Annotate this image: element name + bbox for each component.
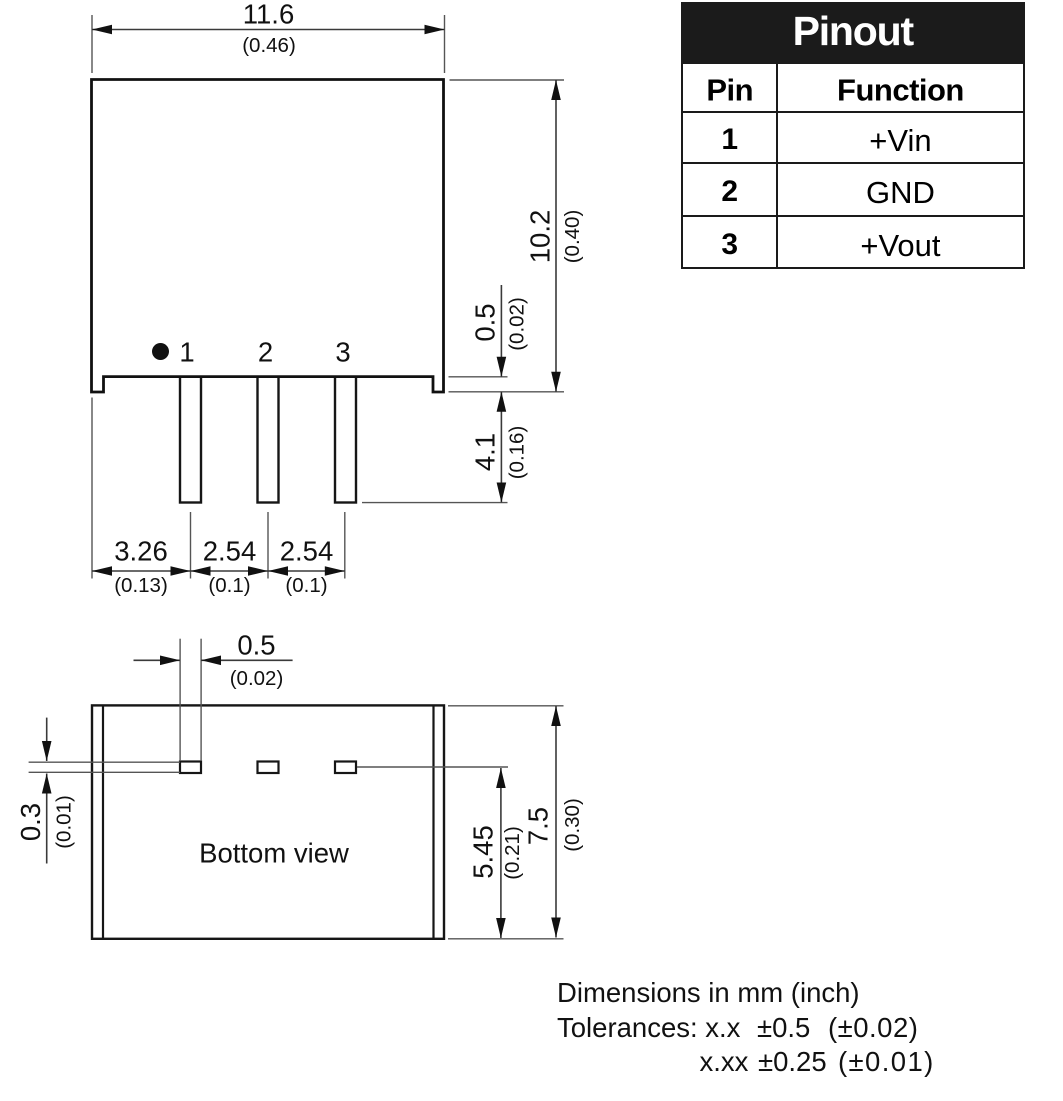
- extension line right of 11.6 dim: [444, 15, 446, 73]
- svg-text:11.6: 11.6: [243, 0, 294, 30]
- svg-text:7.5: 7.5: [523, 807, 554, 845]
- extension line at pin tips for 4.1 dim: [362, 502, 508, 504]
- pin 3 lead (front view): [335, 377, 356, 503]
- svg-text:1: 1: [179, 337, 194, 368]
- extension line below pin 1: [190, 512, 192, 579]
- svg-text:5.45: 5.45: [468, 825, 499, 879]
- extension line pad1 left for 0.5 dim: [179, 639, 181, 761]
- svg-text:(0.1): (0.1): [285, 574, 327, 597]
- dimension line 4.1: [500, 392, 502, 503]
- package body outline (front view): [92, 80, 444, 393]
- dimension line 3.26 / 2.54 / 2.54: [92, 570, 345, 572]
- svg-text:(0.13): (0.13): [114, 574, 168, 597]
- svg-text:0.5: 0.5: [237, 630, 275, 661]
- pad 1 (bottom view): [180, 762, 201, 774]
- svg-text:(0.1): (0.1): [208, 574, 250, 597]
- extension line top right for 7.5 dim: [448, 705, 564, 707]
- extension line pad3 for 5.45 dim: [357, 766, 508, 768]
- svg-text:(0.02): (0.02): [230, 667, 284, 690]
- pad 3 (bottom view): [335, 762, 356, 774]
- dimension line 0.3 upper part: [46, 718, 48, 761]
- svg-text:4.1: 4.1: [470, 433, 501, 471]
- dimension line 11.6: [92, 29, 445, 31]
- svg-text:3: 3: [335, 337, 350, 368]
- extension line pad1 right for 0.5 dim: [200, 639, 202, 761]
- note: tolerances line 2: [700, 1046, 749, 1078]
- dimension line 10.2: [555, 80, 557, 392]
- svg-text:(0.02): (0.02): [506, 297, 529, 351]
- svg-text:(0.21): (0.21): [501, 826, 524, 880]
- svg-text:(0.46): (0.46): [242, 34, 296, 57]
- svg-text:0.3: 0.3: [15, 803, 46, 841]
- dimension line 5.45: [500, 768, 502, 938]
- extension line pad1 top for 0.3 dim: [29, 761, 180, 763]
- extension line below left body edge: [91, 398, 93, 579]
- note: tolerances line 1: [557, 1012, 740, 1044]
- svg-text:10.2: 10.2: [525, 210, 556, 264]
- extension line at body bottom edge for 0.5 dim: [449, 376, 508, 378]
- svg-text:(0.01): (0.01): [53, 795, 76, 849]
- pinout table: [681, 2, 1025, 269]
- dimension line 7.5: [555, 706, 557, 938]
- svg-text:(0.40): (0.40): [561, 210, 584, 264]
- dimension line 0.5 right segment: [201, 659, 293, 661]
- bottom view right wall line: [432, 705, 434, 938]
- svg-text:2: 2: [258, 337, 273, 368]
- extension line bottom of 10.2 dim (standoff bottom): [449, 391, 565, 393]
- extension line bottom right for 7.5 dim: [448, 938, 564, 940]
- extension line pad1 bottom for 0.3 dim: [29, 771, 180, 773]
- extension line below pin 3: [344, 512, 346, 579]
- bottom view body outline: [92, 705, 444, 938]
- svg-text:3.26: 3.26: [114, 536, 168, 567]
- svg-text:(0.16): (0.16): [506, 426, 529, 480]
- pin 1 polarity dot: [152, 343, 169, 360]
- table row pin 2: [683, 162, 1023, 215]
- table column header row: [683, 64, 1023, 111]
- extension line top of 10.2 dim: [450, 79, 565, 81]
- pad 2 (bottom view): [258, 762, 279, 774]
- table row pin 3: [683, 215, 1023, 267]
- svg-text:Bottom view: Bottom view: [199, 838, 349, 869]
- svg-text:0.5: 0.5: [470, 303, 501, 341]
- dimension line 0.5 (upper part): [500, 285, 502, 377]
- pin 2 lead (front view): [258, 377, 279, 503]
- table header Pinout: [681, 2, 1025, 64]
- pin 1 lead (front view): [180, 377, 201, 503]
- note: dimensions units: [557, 977, 860, 1009]
- svg-text:2.54: 2.54: [280, 536, 334, 567]
- table row pin 1: [683, 111, 1023, 162]
- dimension line 0.5 left segment: [134, 659, 181, 661]
- dimension line 0.3 lower part: [46, 774, 48, 864]
- extension line left of 11.6 dim: [91, 15, 93, 73]
- extension line below pin 2: [267, 512, 269, 579]
- bottom view left wall line: [102, 705, 104, 938]
- svg-text:(0.30): (0.30): [561, 798, 584, 852]
- svg-text:2.54: 2.54: [203, 536, 257, 567]
